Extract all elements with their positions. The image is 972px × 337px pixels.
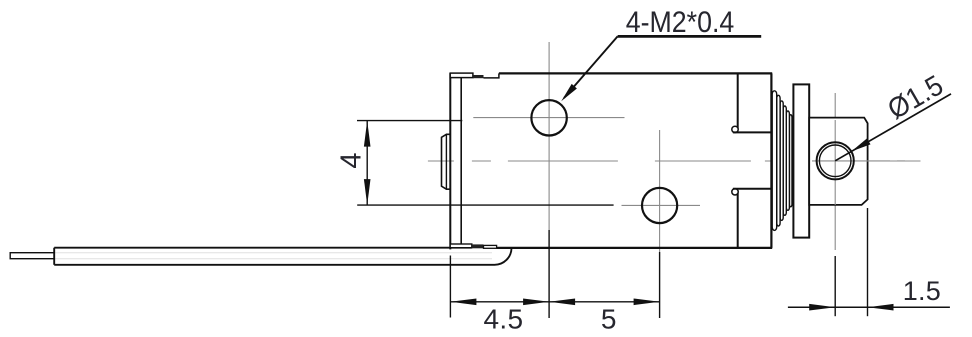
nut centerline v (restore over nut) xyxy=(834,120,836,205)
dim 5 right extension xyxy=(659,252,661,318)
dim 5 arrow left xyxy=(549,299,575,306)
dim 4.5 arrow left xyxy=(450,299,476,306)
top-left cap plate xyxy=(450,73,473,78)
svg-text:4: 4 xyxy=(336,152,368,168)
lever arm left edge xyxy=(53,248,55,265)
top notch horizontal xyxy=(733,131,772,133)
dim 4 dimension line xyxy=(366,121,368,206)
top notch vertical xyxy=(737,73,739,129)
svg-text:4.5: 4.5 xyxy=(484,304,524,335)
dim 1.5 left extension xyxy=(834,256,836,316)
label dia 1.5 leader xyxy=(835,94,951,161)
lever arm bottom edge with hook arc xyxy=(54,248,511,265)
svg-text:5: 5 xyxy=(601,304,617,335)
dim 4 arrow up xyxy=(364,121,371,147)
hole H1 circle xyxy=(531,100,566,135)
main horizontal centerline (solenoid axis) xyxy=(428,160,921,162)
top recess edge xyxy=(484,73,499,78)
dim 4 top extension line xyxy=(357,120,462,122)
body right edge xyxy=(770,73,772,248)
rib 3 xyxy=(780,101,783,220)
rib 1 xyxy=(772,91,777,231)
nut hole vertical centerline xyxy=(834,93,836,252)
dim 4 arrow down xyxy=(364,179,371,205)
lever light inner line lower xyxy=(54,258,492,260)
rib 4 xyxy=(783,106,786,215)
nut hole outer circle xyxy=(817,142,854,179)
nut hole inner circle xyxy=(819,145,851,177)
label dia 1.5 leader arrowhead xyxy=(851,138,870,151)
dim 1.5 arrow pointing right xyxy=(809,304,835,311)
svg-text:1.5: 1.5 xyxy=(903,276,941,306)
flange plate xyxy=(793,84,809,237)
hole H2 horizontal centerline xyxy=(622,204,701,206)
bottom weld bar (filled) xyxy=(472,244,484,248)
bottom small plate xyxy=(484,245,497,248)
hole H2 circle xyxy=(642,188,677,223)
dim 4 bottom extension line xyxy=(357,204,613,206)
label 4-M2*0.4 leader xyxy=(564,36,618,98)
hole H1 horizontal centerline xyxy=(473,117,624,119)
body top edge xyxy=(499,72,772,74)
body left outer edge xyxy=(449,73,451,249)
dim 4.5/5 dimension line xyxy=(450,301,659,303)
lever arm top edge xyxy=(54,247,472,249)
dim 1.5 arrow pointing left xyxy=(868,304,894,311)
dim 1.5 right extension xyxy=(867,208,869,316)
plunger outline xyxy=(442,134,451,189)
nut centerline h (restore over nut) xyxy=(812,160,905,162)
rib 5 xyxy=(786,111,789,210)
bottom notch lug circle xyxy=(732,189,738,195)
dim 1.5 dimension line xyxy=(788,306,950,308)
plunger inner edge xyxy=(445,134,447,189)
hole H1 vertical centerline xyxy=(548,42,550,230)
rib 2 xyxy=(777,95,780,226)
top weld bar (filled) xyxy=(473,75,484,78)
label 4-M2*0.4 leader arrowhead xyxy=(561,84,577,101)
dim 4.5 left extension xyxy=(449,256,451,318)
lever light inner line upper xyxy=(54,252,492,254)
svg-text:4-M2*0.4: 4-M2*0.4 xyxy=(626,6,735,39)
dim 4.5/5 middle extension xyxy=(548,230,550,318)
body bottom edge xyxy=(497,247,773,249)
dim 5 arrow right xyxy=(634,299,660,306)
bottom notch vertical xyxy=(737,192,739,248)
rib 6 xyxy=(789,115,792,207)
dim 4.5 arrow right xyxy=(523,299,549,306)
top notch lug circle xyxy=(732,126,738,132)
bottom-left cap plate xyxy=(450,244,472,248)
hole H2 vertical centerline xyxy=(659,130,661,252)
bottom notch horizontal xyxy=(733,188,772,190)
label 4-M2*0.4 underline xyxy=(618,35,762,38)
body left inner edge xyxy=(460,77,462,244)
nut body xyxy=(809,118,867,205)
lever tip xyxy=(10,253,54,259)
